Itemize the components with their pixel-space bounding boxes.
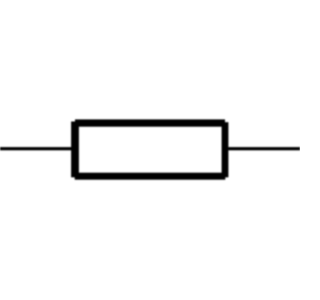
resistor R1 (IEC box body) xyxy=(71,119,228,179)
wire left lead xyxy=(0,147,72,150)
wire right lead xyxy=(228,147,300,150)
